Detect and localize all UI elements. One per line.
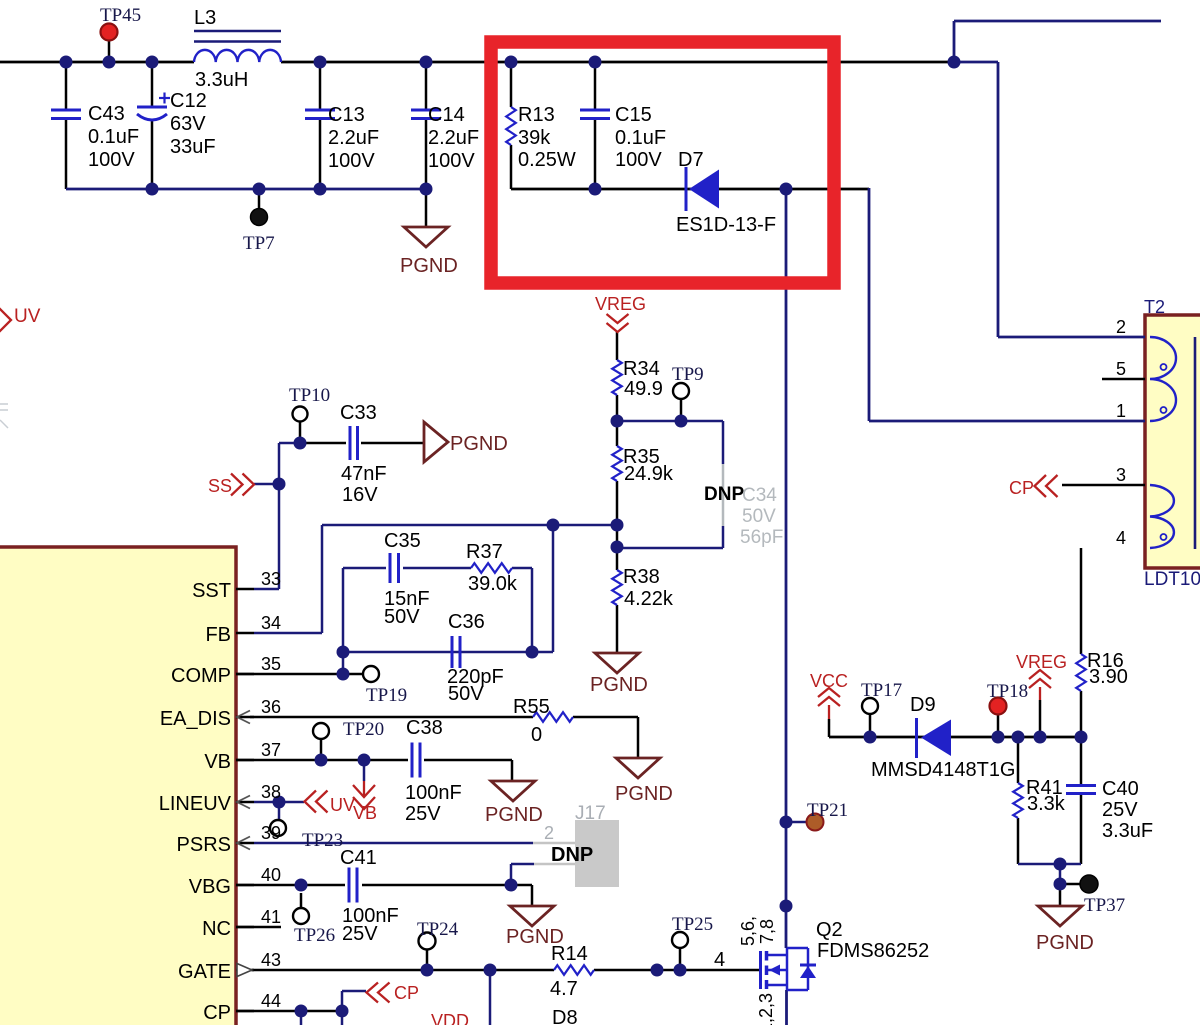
svg-text:TP45: TP45 bbox=[100, 5, 141, 26]
svg-text:37: 37 bbox=[261, 740, 281, 760]
svg-text:EA_DIS: EA_DIS bbox=[160, 708, 231, 730]
svg-text:TP26: TP26 bbox=[294, 925, 335, 946]
svg-text:CP: CP bbox=[203, 1002, 231, 1024]
svg-text:1,2,3: 1,2,3 bbox=[756, 993, 776, 1025]
svg-text:TP7: TP7 bbox=[243, 233, 275, 254]
svg-text:TP19: TP19 bbox=[366, 685, 407, 706]
svg-text:PGND: PGND bbox=[450, 433, 508, 455]
svg-text:63V: 63V bbox=[170, 113, 206, 135]
svg-text:VCC: VCC bbox=[810, 671, 848, 691]
svg-text:GATE: GATE bbox=[178, 961, 231, 983]
svg-text:2: 2 bbox=[1116, 317, 1126, 337]
svg-text:LDT10: LDT10 bbox=[1144, 569, 1200, 590]
svg-text:C13: C13 bbox=[328, 104, 365, 126]
svg-text:49.9: 49.9 bbox=[624, 378, 663, 400]
svg-text:35: 35 bbox=[261, 654, 281, 674]
svg-text:PGND: PGND bbox=[400, 255, 458, 277]
svg-text:TP23: TP23 bbox=[302, 830, 343, 851]
svg-text:2.2uF: 2.2uF bbox=[428, 127, 479, 149]
svg-text:TP25: TP25 bbox=[672, 914, 713, 935]
svg-text:R34: R34 bbox=[623, 358, 660, 380]
svg-text:D9: D9 bbox=[910, 694, 936, 716]
svg-text:50V: 50V bbox=[448, 683, 484, 705]
svg-text:0.25W: 0.25W bbox=[518, 149, 576, 171]
svg-text:PGND: PGND bbox=[485, 804, 543, 826]
svg-text:CP: CP bbox=[1009, 478, 1034, 498]
svg-text:J17: J17 bbox=[575, 803, 606, 824]
svg-text:SS: SS bbox=[208, 476, 232, 496]
svg-text:TP9: TP9 bbox=[672, 364, 704, 385]
svg-text:TP37: TP37 bbox=[1084, 895, 1125, 916]
svg-text:TP21: TP21 bbox=[807, 800, 848, 821]
svg-text:SST: SST bbox=[192, 580, 231, 602]
svg-text:ES1D-13-F: ES1D-13-F bbox=[676, 214, 776, 236]
svg-text:16V: 16V bbox=[342, 484, 378, 506]
svg-text:3: 3 bbox=[1116, 465, 1126, 485]
svg-text:3.3uH: 3.3uH bbox=[195, 69, 248, 91]
svg-text:4: 4 bbox=[714, 949, 725, 971]
svg-text:L3: L3 bbox=[194, 7, 216, 29]
svg-text:MMSD4148T1G: MMSD4148T1G bbox=[871, 759, 1016, 781]
svg-text:0: 0 bbox=[531, 724, 542, 746]
svg-text:5: 5 bbox=[1116, 359, 1126, 379]
svg-text:C43: C43 bbox=[88, 103, 125, 125]
svg-text:R13: R13 bbox=[518, 104, 555, 126]
svg-text:33uF: 33uF bbox=[170, 136, 216, 158]
svg-text:39: 39 bbox=[261, 823, 281, 843]
svg-text:40: 40 bbox=[261, 865, 281, 885]
svg-text:TP20: TP20 bbox=[343, 719, 384, 740]
svg-text:50V: 50V bbox=[742, 506, 776, 527]
svg-text:UV: UV bbox=[330, 795, 355, 815]
svg-text:3.90: 3.90 bbox=[1089, 666, 1128, 688]
svg-text:C38: C38 bbox=[406, 717, 443, 739]
svg-text:C41: C41 bbox=[340, 847, 377, 869]
svg-text:100nF: 100nF bbox=[405, 782, 462, 804]
svg-text:38: 38 bbox=[261, 782, 281, 802]
svg-text:C40: C40 bbox=[1102, 778, 1139, 800]
svg-text:34: 34 bbox=[261, 613, 281, 633]
svg-text:C12: C12 bbox=[170, 90, 207, 112]
svg-text:PGND: PGND bbox=[1036, 932, 1094, 954]
svg-text:2.2uF: 2.2uF bbox=[328, 127, 379, 149]
svg-text:PGND: PGND bbox=[506, 926, 564, 948]
svg-text:TP10: TP10 bbox=[289, 385, 330, 406]
svg-text:TP24: TP24 bbox=[417, 919, 459, 940]
svg-text:44: 44 bbox=[261, 991, 281, 1011]
svg-text:T2: T2 bbox=[1144, 297, 1165, 317]
svg-text:43: 43 bbox=[261, 950, 281, 970]
svg-text:FB: FB bbox=[205, 624, 231, 646]
svg-text:VB: VB bbox=[204, 751, 231, 773]
svg-text:56pF: 56pF bbox=[740, 527, 783, 548]
svg-text:0.1uF: 0.1uF bbox=[615, 127, 666, 149]
svg-text:4.7: 4.7 bbox=[550, 978, 578, 1000]
svg-text:VREG: VREG bbox=[1016, 652, 1067, 672]
svg-text:3.3uF: 3.3uF bbox=[1102, 820, 1153, 842]
svg-text:Q2: Q2 bbox=[816, 919, 843, 941]
svg-text:100V: 100V bbox=[88, 149, 135, 171]
svg-text:VREG: VREG bbox=[595, 294, 646, 314]
svg-text:CP: CP bbox=[394, 983, 419, 1003]
svg-text:C36: C36 bbox=[448, 611, 485, 633]
svg-text:7,8: 7,8 bbox=[757, 919, 777, 944]
svg-text:24.9k: 24.9k bbox=[624, 463, 674, 485]
svg-text:41: 41 bbox=[261, 907, 281, 927]
svg-text:25V: 25V bbox=[1102, 799, 1138, 821]
svg-text:DNP: DNP bbox=[551, 844, 593, 866]
svg-text:3.3k: 3.3k bbox=[1027, 793, 1066, 815]
svg-text:C35: C35 bbox=[384, 530, 421, 552]
svg-text:D8: D8 bbox=[552, 1007, 578, 1025]
svg-text:VDD: VDD bbox=[431, 1011, 469, 1025]
svg-text:50V: 50V bbox=[384, 606, 420, 628]
svg-text:0.1uF: 0.1uF bbox=[88, 126, 139, 148]
svg-text:VB: VB bbox=[353, 803, 377, 823]
svg-text:NC: NC bbox=[202, 918, 231, 940]
svg-text:PGND: PGND bbox=[615, 783, 673, 805]
svg-text:4.22k: 4.22k bbox=[624, 588, 674, 610]
svg-text:47nF: 47nF bbox=[341, 463, 387, 485]
svg-text:100V: 100V bbox=[615, 149, 662, 171]
svg-text:FDMS86252: FDMS86252 bbox=[817, 940, 929, 962]
svg-text:R37: R37 bbox=[466, 541, 503, 563]
svg-text:39k: 39k bbox=[518, 127, 551, 149]
svg-text:25V: 25V bbox=[342, 923, 378, 945]
svg-text:5,6,: 5,6, bbox=[738, 916, 758, 946]
svg-text:PSRS: PSRS bbox=[177, 834, 231, 856]
svg-text:PGND: PGND bbox=[590, 674, 648, 696]
svg-text:2: 2 bbox=[544, 823, 554, 843]
svg-text:D7: D7 bbox=[678, 149, 704, 171]
svg-text:COMP: COMP bbox=[171, 665, 231, 687]
svg-text:39.0k: 39.0k bbox=[468, 573, 518, 595]
svg-text:4: 4 bbox=[1116, 528, 1126, 548]
svg-text:R55: R55 bbox=[513, 696, 550, 718]
svg-text:C33: C33 bbox=[340, 402, 377, 424]
svg-text:TP17: TP17 bbox=[861, 680, 902, 701]
svg-text:1: 1 bbox=[1116, 401, 1126, 421]
svg-text:VBG: VBG bbox=[189, 876, 231, 898]
svg-text:R38: R38 bbox=[623, 566, 660, 588]
svg-text:C14: C14 bbox=[428, 104, 465, 126]
svg-text:100V: 100V bbox=[428, 150, 475, 172]
svg-text:36: 36 bbox=[261, 697, 281, 717]
svg-text:DNP: DNP bbox=[704, 484, 744, 505]
svg-text:33: 33 bbox=[261, 569, 281, 589]
svg-text:UV: UV bbox=[14, 306, 41, 327]
svg-text:LINEUV: LINEUV bbox=[159, 793, 232, 815]
svg-text:100V: 100V bbox=[328, 150, 375, 172]
svg-text:TP18: TP18 bbox=[987, 681, 1028, 702]
svg-text:C34: C34 bbox=[742, 485, 777, 506]
svg-text:25V: 25V bbox=[405, 803, 441, 825]
svg-text:C15: C15 bbox=[615, 104, 652, 126]
